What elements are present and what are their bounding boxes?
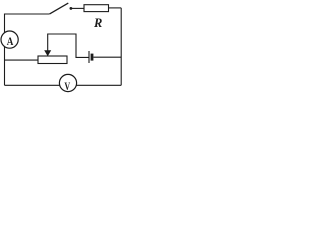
svg-text:R: R	[93, 16, 102, 30]
svg-text:A: A	[7, 36, 14, 48]
svg-text:V: V	[64, 79, 70, 93]
